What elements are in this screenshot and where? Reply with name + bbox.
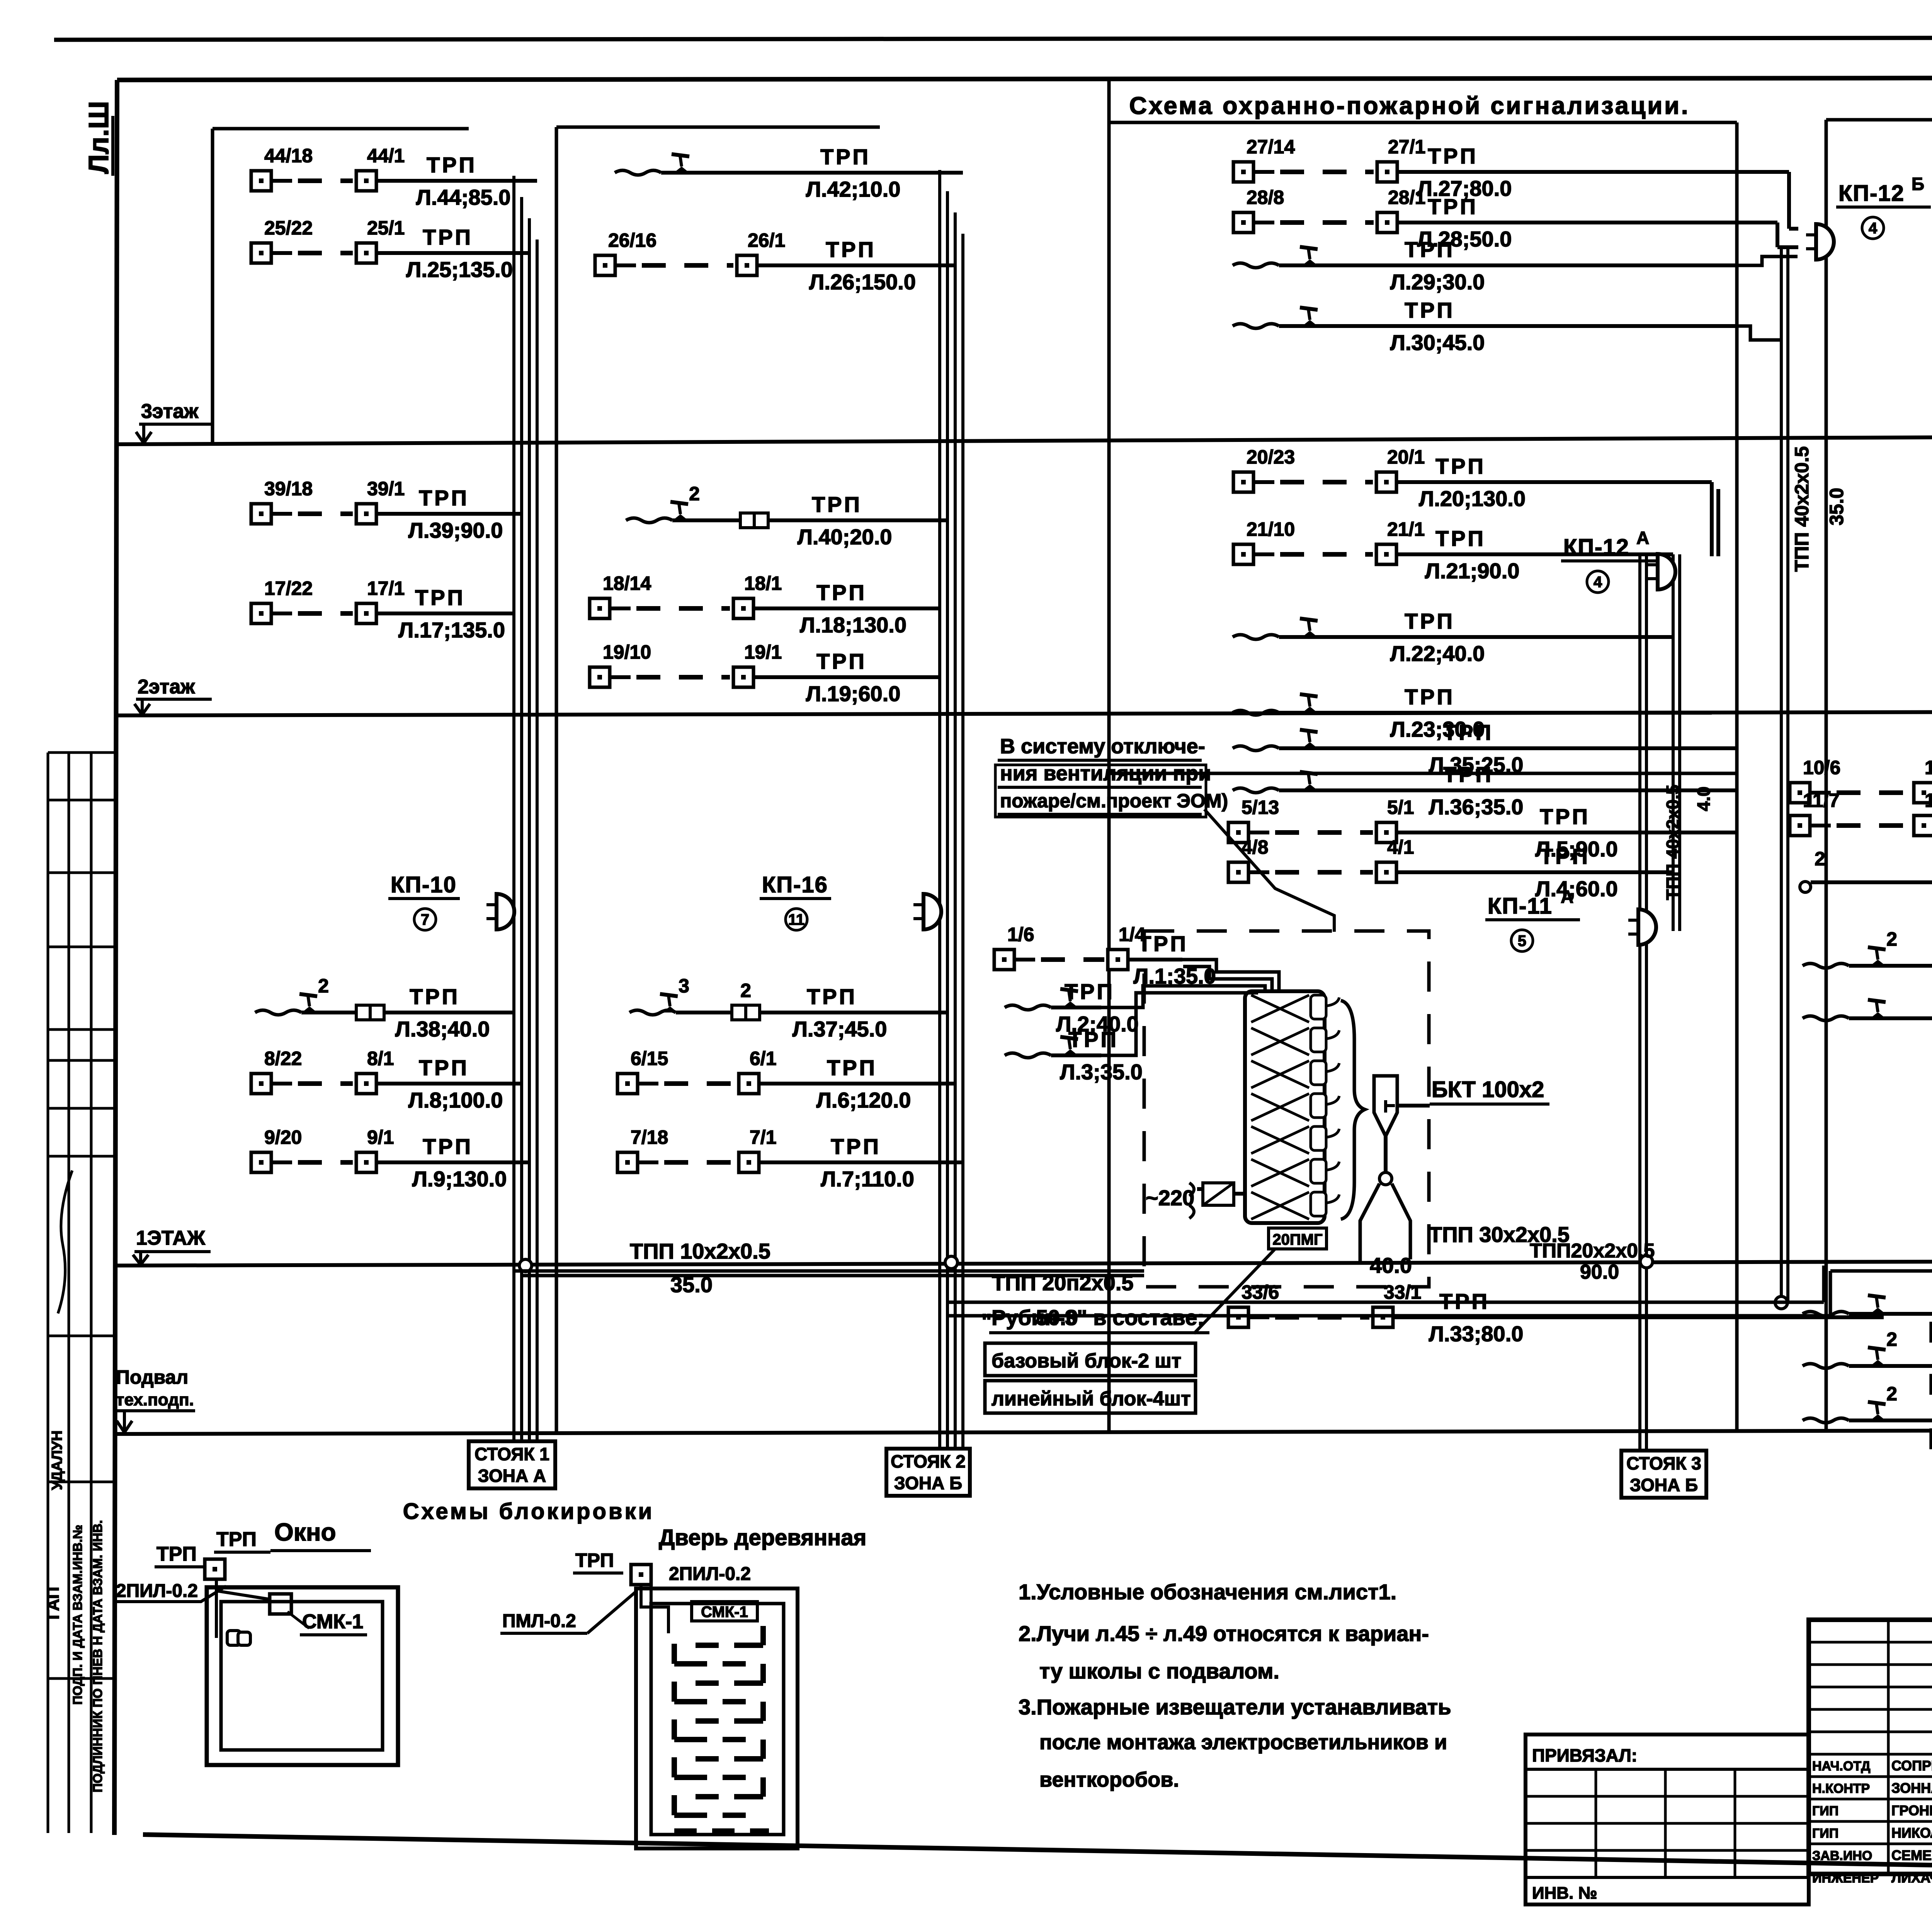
svg-text:КП-10: КП-10 [391, 872, 457, 897]
riser bundle КП-12А/11А [1672, 554, 1675, 931]
svg-text:СТОЯК 1: СТОЯК 1 [474, 1444, 549, 1464]
svg-text:ТРП: ТРП [427, 153, 477, 177]
svg-text:28/1: 28/1 [1388, 187, 1425, 208]
svg-text:ТРП: ТРП [816, 580, 867, 605]
leader wire from note to panel [1204, 809, 1334, 932]
window detector square [205, 1559, 225, 1579]
page top border line [54, 37, 1932, 40]
junction node [519, 1259, 532, 1272]
detector loop Л.19 [590, 641, 940, 706]
svg-text:33/1: 33/1 [1384, 1281, 1421, 1303]
svg-text:ТРП: ТРП [812, 492, 862, 516]
svg-text:27/14: 27/14 [1247, 136, 1295, 158]
door top wire [641, 1580, 668, 1831]
detector loop Л.37 [629, 975, 947, 1041]
svg-text:40.0: 40.0 [1370, 1253, 1412, 1278]
drawing frame top [117, 77, 1932, 80]
svg-text:ТРП: ТРП [1428, 144, 1478, 168]
svg-text:Л.21;90.0: Л.21;90.0 [1425, 559, 1520, 583]
svg-text:21/1: 21/1 [1387, 518, 1425, 540]
detector loop Л.20 [1233, 446, 1712, 511]
junction node [1640, 1255, 1653, 1268]
svg-text:9/1: 9/1 [367, 1126, 394, 1148]
svg-text:7: 7 [421, 911, 429, 928]
svg-text:Схемы блокировки: Схемы блокировки [403, 1499, 655, 1524]
svg-text:ТРП: ТРП [1435, 454, 1486, 478]
svg-text:Л.8;100.0: Л.8;100.0 [408, 1088, 503, 1112]
step wires into bell КП-12Б [1737, 257, 1798, 340]
detector loop Л.14 [1803, 990, 1932, 1047]
svg-text:2: 2 [1886, 1383, 1897, 1405]
svg-text:6/15: 6/15 [631, 1048, 668, 1069]
detector loop Л.18 [590, 573, 940, 637]
svg-text:ТПП 10х2х0.5: ТПП 10х2х0.5 [630, 1239, 770, 1263]
svg-text:ТПП 40х2х0.5: ТПП 40х2х0.5 [1791, 446, 1813, 572]
BKT terminal box [1374, 1076, 1397, 1136]
door wire maze [674, 1626, 769, 1831]
svg-text:2: 2 [1886, 928, 1897, 950]
svg-text:ТРП: ТРП [1443, 762, 1493, 787]
svg-text:ТРП: ТРП [419, 486, 469, 510]
detector loop Л.11 [1790, 790, 1932, 854]
svg-text:ТРП: ТРП [423, 1134, 473, 1159]
window frame outer [207, 1587, 398, 1765]
svg-text:11/7: 11/7 [1803, 790, 1840, 811]
window connector [227, 1631, 240, 1645]
bus wire pair 1st floor [947, 1301, 1824, 1304]
svg-text:2: 2 [1886, 1328, 1897, 1350]
wire ~220 arcs [1189, 1183, 1194, 1218]
riser pair ТПП40 [1780, 247, 1783, 1302]
floor label 2этаж [134, 676, 212, 715]
svg-text:ГАП: ГАП [44, 1587, 63, 1620]
svg-text:пожаре/см.проект ЭОМ): пожаре/см.проект ЭОМ) [1000, 790, 1228, 812]
svg-text:20/23: 20/23 [1247, 446, 1295, 468]
svg-text:Л.30;45.0: Л.30;45.0 [1390, 330, 1485, 355]
wire BKT to node [1384, 1136, 1388, 1172]
bell stub lines КП-12Б [1737, 170, 1789, 174]
svg-text:ТРП: ТРП [1435, 526, 1486, 550]
detector loop Л.39 [251, 478, 522, 542]
junction node [945, 1256, 957, 1269]
svg-text:1ЭТАЖ: 1ЭТАЖ [136, 1227, 206, 1249]
svg-text:Л.3;35.0: Л.3;35.0 [1060, 1060, 1143, 1084]
svg-text:СМК-1: СМК-1 [302, 1611, 363, 1633]
svg-text:КП-16: КП-16 [762, 872, 828, 897]
svg-text:39/18: 39/18 [264, 478, 313, 499]
svg-text:ГИП: ГИП [1812, 1804, 1838, 1818]
svg-text:ТРП: ТРП [1405, 237, 1455, 262]
svg-text:А: А [1561, 887, 1573, 907]
svg-text:Н.КОНТР: Н.КОНТР [1812, 1781, 1870, 1796]
svg-text:11/1: 11/1 [1925, 790, 1932, 811]
svg-text:": " [981, 1309, 992, 1334]
detector loop Л.40 [626, 483, 947, 549]
detector loop Л.29 [1233, 237, 1737, 294]
detector loop Л.2 [1005, 979, 1139, 1036]
svg-text:25/22: 25/22 [264, 217, 313, 239]
bell КП-11А [1628, 909, 1656, 945]
svg-text:90.0: 90.0 [1580, 1261, 1619, 1283]
svg-text:3этаж: 3этаж [141, 400, 199, 423]
svg-text:Л.39;90.0: Л.39;90.0 [408, 518, 503, 542]
detector loop Л.35 [1233, 720, 1737, 777]
svg-text:21/10: 21/10 [1247, 518, 1295, 540]
svg-text:КП-12: КП-12 [1563, 535, 1629, 560]
svg-text:2: 2 [689, 483, 700, 505]
basement line [117, 1429, 1932, 1434]
svg-text:2: 2 [318, 975, 329, 997]
svg-text:В систему отключе-: В систему отключе- [1000, 735, 1205, 758]
svg-text:2этаж: 2этаж [138, 676, 195, 698]
detector loop Л.1 [994, 924, 1216, 988]
door sensor label [692, 1602, 757, 1621]
svg-text:7/18: 7/18 [631, 1126, 668, 1148]
svg-text:8/22: 8/22 [264, 1048, 302, 1069]
svg-text:10/1: 10/1 [1925, 757, 1932, 778]
svg-text:ТРП: ТРП [575, 1549, 614, 1571]
svg-text:ПРИВЯЗАЛ:: ПРИВЯЗАЛ: [1532, 1745, 1637, 1765]
bell КП-16 [913, 894, 941, 929]
svg-text:Л.26;150.0: Л.26;150.0 [809, 270, 916, 294]
svg-text:ТРП: ТРП [831, 1134, 881, 1159]
detector loop Л.9 [251, 1126, 529, 1191]
zone box 3 (middle) outline [1109, 121, 1737, 124]
door ТРП label [573, 1549, 623, 1573]
svg-text:11: 11 [788, 911, 804, 928]
svg-text:4: 4 [1869, 220, 1878, 237]
svg-text:после монтажа электросветильни: после монтажа электросветильников и [1039, 1731, 1447, 1754]
2nd floor line [117, 711, 1932, 715]
svg-text:ЗОНА Б: ЗОНА Б [894, 1473, 962, 1493]
svg-text:ТПП20х2х0.5: ТПП20х2х0.5 [1530, 1240, 1655, 1262]
window wire [216, 1579, 270, 1638]
svg-text:Л.44;85.0: Л.44;85.0 [416, 185, 511, 209]
svg-text:ИНВ. №: ИНВ. № [1532, 1884, 1597, 1903]
svg-text:27/1: 27/1 [1388, 136, 1425, 158]
relay box [1203, 1183, 1234, 1205]
detector loop Л.22 [1233, 609, 1673, 666]
detector loop Л.44 [251, 145, 537, 209]
svg-text:ТРП: ТРП [415, 585, 465, 610]
detector loop Л.7 [617, 1126, 963, 1191]
svg-text:венткоробов.: венткоробов. [1039, 1768, 1179, 1791]
svg-text:Подвал: Подвал [116, 1366, 188, 1388]
svg-text:26/16: 26/16 [608, 229, 656, 251]
control panel Рубин-3 [1245, 991, 1339, 1223]
bus wire pair below 1st floor left [514, 1269, 1144, 1273]
svg-text:ТРП: ТРП [816, 649, 867, 673]
detector loop Л.38 [255, 975, 514, 1041]
zone box 3 bottom (2nd floor extension) [1109, 772, 1737, 775]
svg-text:~220: ~220 [1146, 1186, 1194, 1210]
svg-text:5/13: 5/13 [1242, 797, 1279, 818]
left margin attachment strip [44, 753, 115, 1833]
svg-text:1.Условные обозначения см.лист: 1.Условные обозначения см.лист1. [1019, 1580, 1396, 1604]
svg-text:[Л.49; 60.0]: [Л.49; 60.0] [1929, 1425, 1932, 1449]
riser bundle стояк 3 [1638, 552, 1641, 1451]
door label ПМЛ-0.2 [500, 1592, 636, 1633]
detector loop Л.45 [1803, 1286, 1932, 1342]
dashed enclosure Рубин-3 panel [1144, 931, 1429, 1287]
detector loop Л.23 [1233, 685, 1712, 741]
svg-text:ЗОНА А: ЗОНА А [478, 1466, 546, 1486]
brace [1341, 1001, 1365, 1219]
svg-text:10/6: 10/6 [1803, 757, 1840, 778]
svg-text:28/8: 28/8 [1247, 187, 1284, 208]
label БКТ 100х2 [1397, 1077, 1549, 1106]
svg-text:Л.6;120.0: Л.6;120.0 [816, 1088, 911, 1112]
svg-text:2.Лучи л.45 ÷ л.49 относятся: 2.Лучи л.45 ÷ л.49 относятся к вариан- [1019, 1621, 1429, 1646]
svg-text:ту школы с подвалом.: ту школы с подвалом. [1039, 1659, 1279, 1683]
bell КП-10 [486, 894, 514, 929]
svg-text:А: А [1636, 528, 1649, 548]
detector loop Л.21 [1233, 518, 1673, 583]
svg-text:СОПРИНСКИЙ: СОПРИНСКИЙ [1891, 1757, 1932, 1774]
svg-text:БКТ 100х2: БКТ 100х2 [1432, 1077, 1544, 1102]
svg-text:1/6: 1/6 [1007, 924, 1034, 945]
svg-text:19/1: 19/1 [744, 641, 782, 663]
svg-text:Л.22;40.0: Л.22;40.0 [1390, 641, 1485, 666]
detector loop Л.6 [617, 1048, 955, 1112]
svg-text:[Л.48; 60.0]: [Л.48; 60.0] [1929, 1370, 1932, 1395]
svg-text:Л.18;130.0: Л.18;130.0 [800, 613, 906, 637]
detector loop Л.42 [615, 144, 963, 201]
svg-text:Л.33;80.0: Л.33;80.0 [1429, 1322, 1524, 1346]
note В систему отключения [995, 735, 1228, 817]
detector loop Л.10 [1790, 757, 1932, 821]
call-point label КП-16 [760, 872, 831, 930]
svg-text:СЕМЕНОВА: СЕМЕНОВА [1891, 1847, 1932, 1863]
svg-text:ТРП: ТРП [1443, 720, 1493, 744]
detector loop Л.28 [1233, 187, 1737, 251]
svg-text:КП-12: КП-12 [1838, 181, 1905, 206]
svg-text:Л.25;135.0: Л.25;135.0 [406, 257, 513, 282]
svg-text:20/1: 20/1 [1387, 446, 1425, 468]
svg-text:СМК-1: СМК-1 [701, 1604, 748, 1621]
detector loop Л.12 [1800, 848, 1932, 911]
svg-text:ТРП: ТРП [807, 984, 857, 1009]
call-point label КП-10 [388, 872, 460, 930]
svg-text:2: 2 [1815, 848, 1825, 870]
riser box СТОЯК 2 ЗОНА Б [886, 1449, 970, 1496]
svg-text:9/20: 9/20 [264, 1126, 302, 1148]
svg-text:ТРП: ТРП [419, 1055, 469, 1080]
svg-text:линейный блок-4шт: линейный блок-4шт [992, 1388, 1191, 1410]
door frame inner [651, 1604, 784, 1835]
detector loop Л.3 [1005, 1027, 1143, 1084]
window sensor СМК-1 [270, 1594, 367, 1635]
riser box СТОЯК 3 ЗОНА Б [1621, 1451, 1706, 1498]
zone box 4 (right) outline [1826, 118, 1932, 122]
bus companion line right part [1830, 1269, 1932, 1273]
svg-text:ПОДЛИННИК ПО ПНЕВ Н ДАТА ВЗАМ.: ПОДЛИННИК ПО ПНЕВ Н ДАТА ВЗАМ. ИНВ. [90, 1520, 105, 1792]
svg-text:4.0: 4.0 [1694, 787, 1714, 811]
svg-text:20ПМГ: 20ПМГ [1272, 1231, 1322, 1248]
svg-text:44/18: 44/18 [264, 145, 313, 166]
call-point label КП-11 [1485, 887, 1580, 951]
detector loop Л.25 [251, 217, 529, 282]
svg-text:ТРП: ТРП [156, 1543, 197, 1565]
notes text [1019, 1580, 1451, 1791]
svg-text:Л.40;20.0: Л.40;20.0 [798, 525, 892, 549]
bus step up at стояк4 junction [1822, 1266, 1826, 1302]
panel bottom label 20ПМГ [1269, 1228, 1327, 1249]
svg-text:ПОДП. И ДАТА ВЗАМ.ИНВ.№: ПОДП. И ДАТА ВЗАМ.ИНВ.№ [70, 1525, 85, 1705]
svg-text:5/1: 5/1 [1387, 797, 1414, 818]
svg-text:17/1: 17/1 [367, 578, 405, 599]
bell КП-12Б [1806, 224, 1834, 260]
detector loop Л.4 [1228, 836, 1673, 901]
svg-text:3: 3 [679, 975, 689, 997]
svg-text:СТОЯК 2: СТОЯК 2 [891, 1451, 966, 1471]
svg-text:НИКОЛОВА: НИКОЛОВА [1891, 1825, 1932, 1841]
svg-text:Л.9;130.0: Л.9;130.0 [412, 1167, 507, 1191]
page bottom border [143, 1835, 1932, 1878]
leader to Рубин-3 note [1194, 1249, 1275, 1334]
svg-text:ТРП: ТРП [1540, 804, 1590, 829]
floor label 1этаж [133, 1227, 211, 1265]
svg-text:Схема охранно-пожарной сигнали: Схема охранно-пожарной сигнализации. [1129, 92, 1690, 119]
junction node [1775, 1296, 1787, 1309]
svg-text:ГРОНШТЕЙН: ГРОНШТЕЙН [1891, 1802, 1932, 1818]
svg-text:Л.42;10.0: Л.42;10.0 [806, 177, 901, 201]
svg-text:ТПП 40х2х0.5: ТПП 40х2х0.5 [1663, 785, 1683, 900]
detector loop Л.8 [251, 1048, 522, 1112]
detector loop Л.26 [595, 229, 955, 294]
svg-text:Окно: Окно [274, 1518, 336, 1546]
note Рубин-3 в составе [981, 1305, 1209, 1413]
svg-text:33/6: 33/6 [1242, 1281, 1279, 1303]
svg-text:СТОЯК 3: СТОЯК 3 [1626, 1453, 1701, 1473]
svg-text:ТРП: ТРП [1065, 979, 1115, 1004]
svg-text:ЗОНА Б: ЗОНА Б [1630, 1475, 1698, 1495]
window frame inner [221, 1602, 383, 1750]
svg-text:4/1: 4/1 [1387, 836, 1414, 858]
svg-text:18/14: 18/14 [603, 573, 651, 594]
wires Л.2 Л.3 into panel [1101, 986, 1265, 1007]
svg-text:39/1: 39/1 [367, 478, 405, 499]
detector loop Л.5 [1228, 797, 1737, 861]
svg-text:Л.29;30.0: Л.29;30.0 [1390, 270, 1485, 294]
zone box 2 outline [556, 126, 880, 129]
svg-text:ТРП: ТРП [1540, 844, 1590, 868]
svg-text:Л.36;35.0: Л.36;35.0 [1429, 795, 1524, 819]
svg-text:2ПИЛ-0.2: 2ПИЛ-0.2 [669, 1564, 751, 1584]
svg-text:2ПИЛ-0.2: 2ПИЛ-0.2 [116, 1581, 198, 1601]
svg-text:НАЧ.ОТД: НАЧ.ОТД [1812, 1759, 1870, 1774]
zone box 3 right riser [1735, 122, 1739, 1429]
call-point label КП-12 [1836, 174, 1931, 239]
svg-text:7/1: 7/1 [750, 1126, 777, 1148]
riser box СТОЯК 1 ЗОНА А [469, 1441, 555, 1488]
detector loop Л.13 [1803, 928, 1932, 994]
svg-text:17/22: 17/22 [264, 578, 313, 599]
svg-text:Л.17;135.0: Л.17;135.0 [398, 618, 505, 642]
svg-text:25/1: 25/1 [367, 217, 405, 239]
svg-text:ЗАВ.ИНО: ЗАВ.ИНО [1812, 1848, 1872, 1863]
detector loop Л.49 [1803, 1383, 1932, 1449]
svg-text:ТРП: ТРП [1405, 298, 1455, 322]
floor label 3этаж [136, 400, 213, 443]
svg-text:19/10: 19/10 [603, 641, 651, 663]
svg-text:ТРП: ТРП [1405, 685, 1455, 709]
wires node split [1360, 1184, 1410, 1263]
svg-text:Лл.Ш: Лл.Ш [83, 101, 114, 174]
svg-text:тех.подп.: тех.подп. [116, 1390, 194, 1409]
svg-text:ТРП: ТРП [410, 984, 460, 1009]
svg-text:26/1: 26/1 [748, 229, 785, 251]
svg-text:ЛИХАЧЕВА: ЛИХАЧЕВА [1891, 1870, 1932, 1886]
call-point label КП-12 [1561, 528, 1656, 593]
svg-text:ГИП: ГИП [1812, 1826, 1838, 1841]
section mark Лл.III [83, 101, 114, 176]
svg-text:ТРП: ТРП [820, 144, 871, 169]
junction node [1379, 1172, 1392, 1185]
svg-text:КП-11: КП-11 [1488, 894, 1553, 919]
3rd floor line [117, 435, 1932, 444]
svg-text:ИНЖЕНЕР: ИНЖЕНЕР [1812, 1871, 1879, 1886]
detector loop Л.33 [1228, 1281, 1884, 1346]
svg-text:Дверь деревянная: Дверь деревянная [659, 1525, 866, 1550]
svg-text:Л.38;40.0: Л.38;40.0 [395, 1017, 490, 1041]
drawing frame left [114, 80, 117, 1835]
svg-text:5: 5 [1518, 933, 1526, 950]
1st floor line [117, 1260, 1932, 1266]
svg-text:ТРП: ТРП [1428, 194, 1478, 219]
svg-text:ТРП: ТРП [216, 1528, 257, 1551]
detector loop Л.27 [1233, 136, 1737, 200]
svg-text:Л.37;45.0: Л.37;45.0 [793, 1017, 887, 1041]
svg-text:базовый блок-2 шт: базовый блок-2 шт [992, 1350, 1181, 1372]
svg-text:ТРП: ТРП [1068, 1027, 1119, 1052]
svg-text:Л.19;60.0: Л.19;60.0 [806, 681, 901, 706]
riser bundle zone A (стояк 1) [512, 176, 515, 1441]
svg-text:44/1: 44/1 [367, 145, 405, 166]
svg-text:ТРП: ТРП [423, 225, 473, 249]
svg-text:УДАЛУН: УДАЛУН [49, 1430, 65, 1490]
table ПРИВЯЗАЛ [1526, 1735, 1809, 1904]
svg-text:ТРП: ТРП [826, 237, 876, 262]
detector loop Л.30 [1233, 298, 1737, 355]
title block [1809, 1620, 1932, 1886]
svg-text:ПМЛ-0.2: ПМЛ-0.2 [502, 1611, 576, 1631]
svg-text:8/1: 8/1 [367, 1048, 394, 1069]
svg-text:35.0: 35.0 [1826, 488, 1847, 525]
detector loop Л.17 [251, 578, 514, 642]
svg-text:Л.7;110.0: Л.7;110.0 [821, 1167, 914, 1191]
svg-text:3.Пожарные извещатели устанавл: 3.Пожарные извещатели устанавливать [1019, 1695, 1451, 1719]
bell КП-12А [1648, 554, 1675, 590]
svg-text:ЗОННА: ЗОННА [1891, 1780, 1932, 1796]
svg-text:4: 4 [1594, 574, 1602, 591]
svg-text:2: 2 [740, 980, 751, 1001]
svg-text:Б: Б [1912, 174, 1924, 194]
floor label Подвал тех.подп. [115, 1366, 195, 1432]
svg-text:18/1: 18/1 [744, 573, 782, 594]
wire drop row 20 to КП-12А [1710, 482, 1714, 556]
window ТРП labels [155, 1528, 371, 1567]
svg-text:ТРП: ТРП [1405, 609, 1455, 633]
detector loop Л.36 [1233, 762, 1737, 819]
door detector square [631, 1565, 651, 1585]
svg-text:6/1: 6/1 [750, 1048, 777, 1069]
svg-text:[Л.45; 25.0]: [Л.45; 25.0] [1929, 1318, 1932, 1342]
door frame outer [636, 1588, 798, 1848]
svg-text:Л.20;130.0: Л.20;130.0 [1419, 486, 1526, 511]
detector loop Л.48 [1803, 1328, 1932, 1395]
riser bundle стояк 2 [938, 170, 941, 1449]
